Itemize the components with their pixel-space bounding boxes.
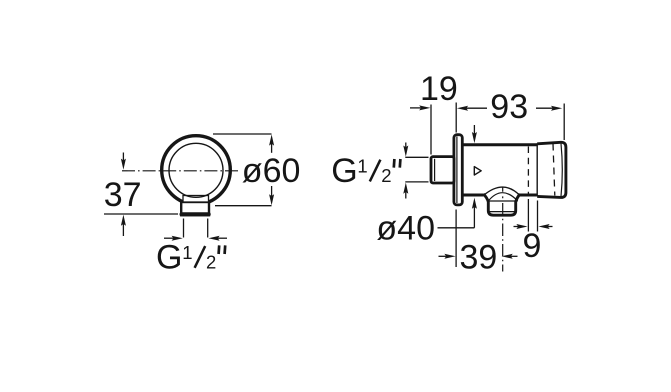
dim 39 right arrow xyxy=(502,254,518,259)
inner circle of rosette xyxy=(169,143,223,197)
svg-text:ø40: ø40 xyxy=(376,209,435,247)
dim 60 lower arrow xyxy=(269,186,274,205)
dim 37 lower arrow xyxy=(121,215,126,236)
outlet cup thick outline xyxy=(483,194,520,215)
dim 19 extension line at inlet tip xyxy=(430,105,432,155)
end cap (volume handle) xyxy=(537,142,566,197)
shared arrow 19 right / 93 left xyxy=(457,106,487,111)
G1/2 lower arrow (side view) xyxy=(403,183,408,199)
wall flange xyxy=(454,135,462,205)
thick bottom connector rectangle xyxy=(181,202,209,215)
outlet dome outer thin arc xyxy=(484,187,520,195)
dim 9 right extension line xyxy=(537,201,539,232)
outlet cylinder top thin line xyxy=(488,200,517,202)
svg-text:G: G xyxy=(331,152,357,190)
G1/2 top extension line (side view) xyxy=(405,156,428,158)
dim 19 left arrow xyxy=(410,105,430,110)
dim 9 left arrow xyxy=(514,224,528,229)
inlet chamfer thin line xyxy=(434,159,436,181)
G1/2 upper arrow (side view) xyxy=(403,143,408,157)
label G1/2 inch (front view) xyxy=(156,238,225,276)
svg-text:39: 39 xyxy=(460,238,498,276)
svg-text:2: 2 xyxy=(206,251,216,272)
diameter 40 leader horizontal xyxy=(438,227,475,229)
label G1/2 inch (side view) xyxy=(331,152,400,190)
svg-text:9: 9 xyxy=(523,227,542,265)
dim 60 top extension line xyxy=(213,133,272,135)
dim 9 right arrow xyxy=(538,224,552,229)
cap left edge thin line xyxy=(536,143,538,196)
dim 39 left arrow xyxy=(439,254,456,259)
flow direction triangle marker xyxy=(474,167,481,175)
dim 37 upper arrow xyxy=(121,153,126,170)
G1/2 right extension line below rosette xyxy=(207,219,209,238)
small arrow onto body top xyxy=(472,125,477,143)
G1/2 right arrow xyxy=(208,236,227,241)
svg-text:19: 19 xyxy=(420,70,458,108)
svg-text:93: 93 xyxy=(490,88,528,126)
dim 93 right segment and arrow xyxy=(536,106,562,111)
dim 9 left extension line xyxy=(527,199,529,232)
dim 60 bottom extension line xyxy=(215,205,272,207)
dim 37 bottom extension line xyxy=(104,213,178,215)
dim 60 upper arrow xyxy=(269,134,274,152)
svg-text:37: 37 xyxy=(104,176,142,214)
outer circle of wall rosette xyxy=(162,136,231,205)
svg-text:ø60: ø60 xyxy=(242,152,301,190)
outlet dome inner thin arc xyxy=(488,193,517,201)
G1/2 bottom extension line (side view) xyxy=(405,181,428,183)
dim 93 extension line at cap end xyxy=(563,104,565,141)
thin collar rectangle under circle xyxy=(183,196,209,203)
hidden dashed line in cap xyxy=(553,144,555,196)
G1/2 left arrow xyxy=(164,236,183,241)
horizontal centerline xyxy=(122,170,238,172)
outlet vertical centerline xyxy=(502,187,504,200)
G1/2 left extension line below rosette xyxy=(183,219,185,238)
cap face thin curve xyxy=(561,144,562,197)
dim 39 extension line at flange xyxy=(455,210,457,268)
hidden dashed line in body xyxy=(527,147,529,194)
svg-text:1: 1 xyxy=(357,155,367,176)
dim 19/93 extension line at flange xyxy=(455,103,457,133)
diameter 40 leader vertical with arrow xyxy=(472,198,477,228)
svg-text:G: G xyxy=(156,238,182,276)
threaded inlet stub xyxy=(431,157,454,183)
outlet thread relief thin line xyxy=(489,211,517,213)
valve body tube xyxy=(461,145,537,195)
svg-text:1: 1 xyxy=(182,242,192,263)
flange face thin line xyxy=(456,137,458,204)
svg-text:2: 2 xyxy=(381,165,391,186)
